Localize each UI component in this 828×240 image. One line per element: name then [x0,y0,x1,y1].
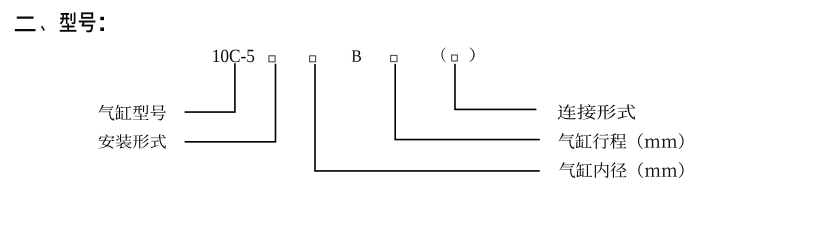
model text B [352,50,361,61]
placeholder square 4 (connection form) [452,55,458,61]
wire from square 3 to label 气缸行程 [395,64,540,140]
wire from square 2 to label 气缸内径 [315,64,540,171]
model text 10C-5 [213,50,254,63]
section title 二、型号： [15,12,96,32]
label 气缸行程（mm） [559,133,684,149]
placeholder square 3 (stroke) [391,55,397,61]
wire from square 4 to label 连接形式 [455,64,536,110]
wire from square 1 to label 安装形式 [185,64,276,142]
label 安装形式 [99,134,166,148]
right parenthesis ） [470,48,475,63]
title colon lower dot [100,27,104,31]
label 连接形式 [558,104,636,119]
label 气缸型号 [98,105,166,121]
left parenthesis （ [442,48,446,63]
wire from 10C-5 to label 气缸型号 [185,63,235,112]
title colon upper dot [100,17,104,20]
label 气缸内径（mm） [559,162,683,178]
placeholder square 2 (bore) [310,56,316,62]
placeholder square 1 (mounting form) [269,56,275,62]
